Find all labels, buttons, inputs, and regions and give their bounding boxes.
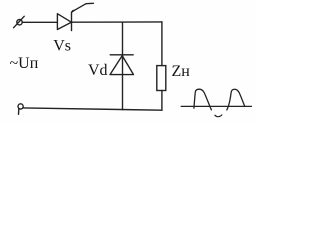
- wire top (terminal to thyristor anode): [22, 21, 57, 23]
- svg-text:~Uп: ~Uп: [10, 55, 39, 72]
- svg-text:Vs: Vs: [53, 38, 71, 55]
- waveform axis: [181, 105, 251, 107]
- thyristor VS: [57, 12, 71, 30]
- gate lead of VS: [72, 3, 94, 12]
- svg-text:Vd: Vd: [88, 62, 108, 79]
- waveform hump 1 (solid): [194, 89, 212, 110]
- wire right branch (corner down to load): [161, 22, 163, 66]
- waveform hump 2 (solid): [227, 89, 245, 110]
- wire bottom return: [23, 108, 162, 110]
- terminal top-left: [14, 16, 25, 27]
- terminal bottom-left: [18, 104, 23, 115]
- svg-text:Zн: Zн: [172, 63, 191, 80]
- wire top (thyristor cathode to right corner): [72, 21, 163, 23]
- wire Vd branch vertical: [122, 22, 124, 110]
- gate junction wedge: [72, 10, 76, 13]
- resistor Zн (load): [157, 66, 166, 91]
- waveform negative half (dashed): [215, 115, 222, 117]
- wire load bottom lead: [161, 91, 163, 111]
- diode Vd: [110, 55, 134, 75]
